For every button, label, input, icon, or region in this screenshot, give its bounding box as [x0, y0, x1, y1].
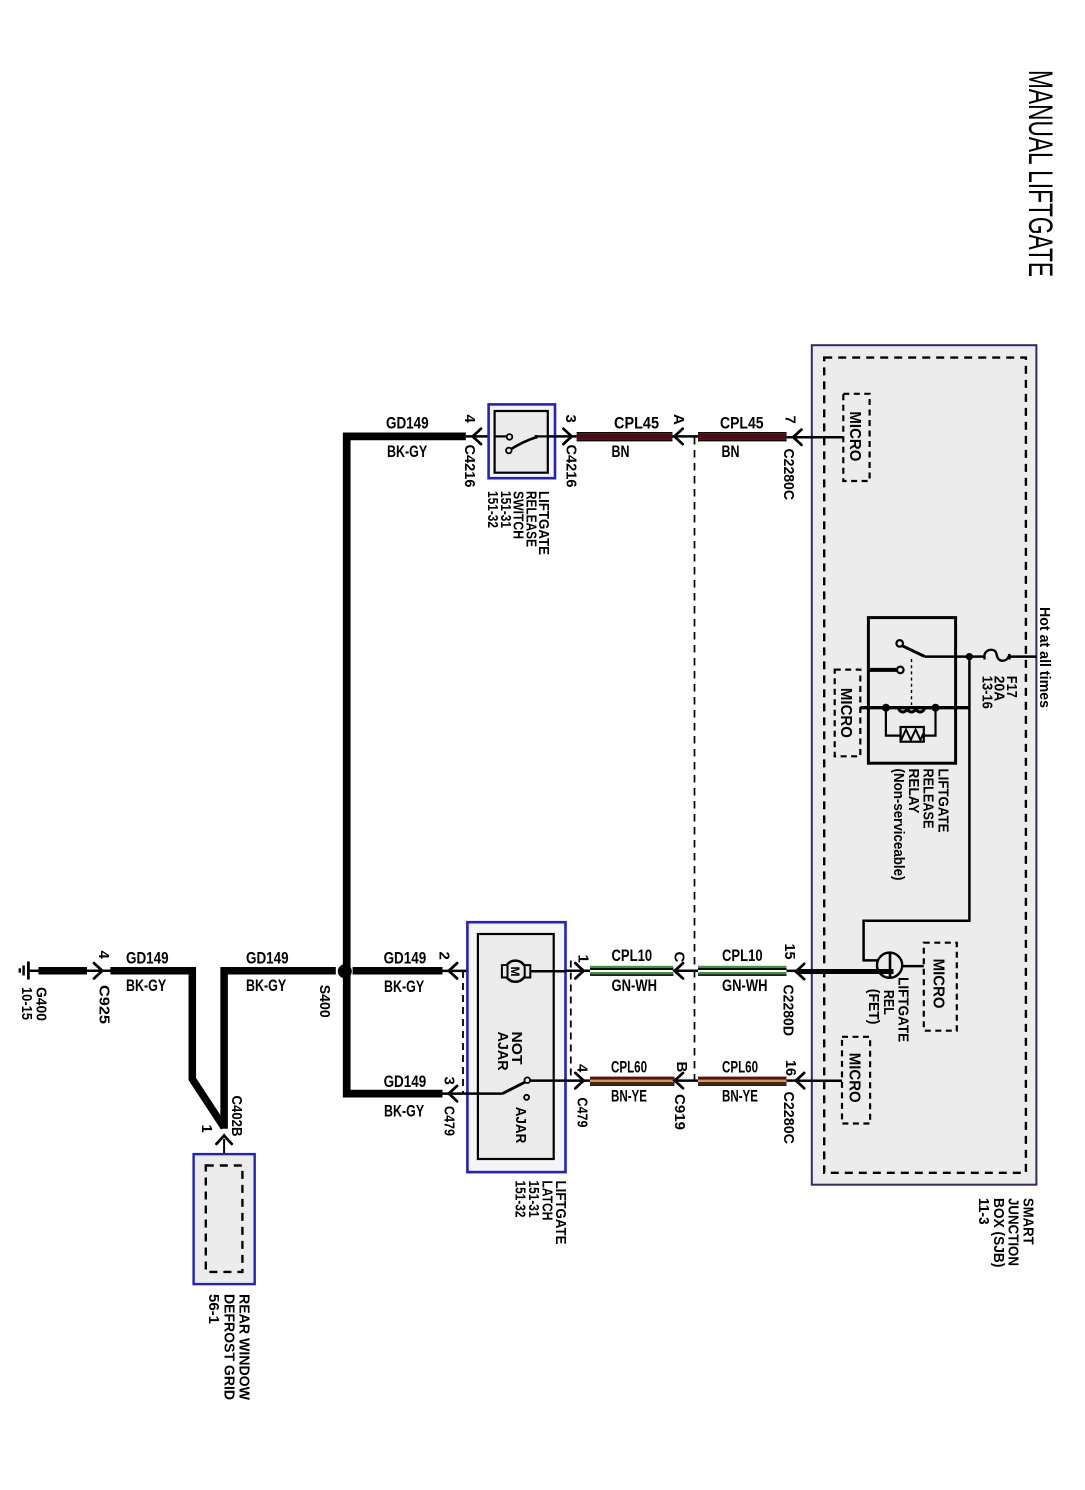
connector arrow C2280C pin 7: [793, 430, 802, 445]
connector arrow C479 pin 3: [449, 1086, 458, 1101]
svg-text:3: 3: [440, 1077, 457, 1085]
svg-text:C2280D: C2280D: [780, 985, 797, 1037]
wire CPL10 GN-WH segment 2: [698, 966, 787, 976]
svg-text:GD149: GD149: [126, 950, 169, 968]
wire thin into defrost grid: [223, 1139, 225, 1166]
wire GD149 row2 right thick: [353, 967, 443, 975]
svg-text:7: 7: [781, 416, 798, 424]
MICRO module U4 (CPL60 input): [842, 1037, 870, 1124]
svg-text:MICRO: MICRO: [846, 411, 863, 461]
svg-text:MICRO: MICRO: [930, 959, 947, 1009]
relay K1 liftgate release relay box: [868, 618, 955, 764]
svg-text:C925: C925: [95, 985, 112, 1024]
connector C479 dashed line left: [462, 971, 464, 1094]
svg-text:BK-GY: BK-GY: [246, 977, 286, 995]
svg-text:3: 3: [562, 415, 579, 423]
wire row2 thin across C919: [673, 970, 698, 973]
wire ajar switch to pin4: [530, 1079, 565, 1082]
svg-text:Hot at all times: Hot at all times: [1036, 607, 1053, 708]
wire vertical drop to C402B (right branch): [224, 971, 336, 1129]
wire battery feed down to FET: [864, 657, 970, 961]
MICRO module U2 (relay coil driver): [835, 670, 861, 757]
connector arrow C402B pin 1 (up): [216, 1135, 231, 1144]
svg-text:CPL45: CPL45: [614, 415, 659, 433]
svg-text:BN-YE: BN-YE: [722, 1088, 758, 1106]
wire pin1 out of latch: [566, 970, 591, 973]
wire row2 thin into latch: [443, 970, 503, 973]
connector arrow C2280C pin 16: [796, 1073, 805, 1088]
latch ajar switch pivot circle: [525, 1077, 531, 1083]
wire row1 thin switch to CPL45: [548, 435, 577, 438]
switch SW1 contact circle upper: [507, 434, 513, 440]
svg-text:CPL45: CPL45: [720, 415, 764, 433]
latch ajar switch open contact circle: [524, 1095, 529, 1100]
latch ajar switch wire left: [478, 1092, 503, 1095]
svg-text:CPL10: CPL10: [722, 947, 763, 965]
connector arrow C919 pin C: [675, 963, 684, 978]
fuse F17 wire left: [969, 655, 984, 658]
relay K1 pivot contact: [896, 640, 903, 647]
junction dot coil right: [932, 704, 940, 712]
wire CPL60 BN-YE segment 1: [590, 1077, 675, 1086]
svg-text:15: 15: [781, 944, 798, 960]
svg-text:1: 1: [198, 1125, 215, 1133]
wire row1 thin through switch pins: [466, 435, 495, 438]
wire fuse to Hot at all times: [1010, 655, 1037, 658]
switch SW1 wire stub right: [536, 435, 548, 437]
connector C919 dashed line: [694, 437, 696, 1081]
wire CPL45 BN segment 2: [698, 432, 787, 441]
svg-text:4: 4: [95, 951, 112, 960]
relay K1 N.O. fixed contact: [868, 668, 896, 672]
wire SJB internal row1 (pin7 to MICRO U1): [796, 436, 843, 439]
svg-text:BN-YE: BN-YE: [611, 1088, 647, 1106]
wire motor to pin1: [530, 970, 565, 973]
svg-text:C: C: [670, 952, 687, 963]
svg-text:BK-GY: BK-GY: [384, 978, 424, 996]
wire SJB internal row3 (pin16 to MICRO U4): [796, 1080, 842, 1083]
wire GD149 ground segment thick: [39, 967, 88, 975]
wire row1 thin across C919: [673, 435, 699, 438]
svg-text:BK-GY: BK-GY: [387, 443, 427, 461]
svg-text:C479: C479: [573, 1098, 590, 1128]
switch SW1 blade: [511, 437, 536, 449]
svg-text:4: 4: [461, 415, 478, 424]
wire CPL10 GN-WH segment 1: [590, 966, 673, 976]
svg-text:C402B: C402B: [228, 1096, 245, 1137]
svg-text:G40010-15: G40010-15: [18, 987, 49, 1021]
connector arrow C925 pin 4: [94, 963, 103, 978]
MICRO module U1 (top, CPL45 feed): [843, 394, 869, 481]
liftgate release switch box: [489, 404, 555, 478]
wire FET gate to MICRO: [902, 965, 924, 968]
junction dot coil left: [882, 704, 890, 712]
svg-text:CPL60: CPL60: [722, 1059, 758, 1077]
connector arrow C479 pin 1: [575, 963, 584, 978]
connector arrow C4216 pin 3: [563, 429, 572, 444]
connector C479 dashed line right: [570, 961, 572, 1081]
svg-text:BN: BN: [722, 443, 740, 461]
svg-text:S400: S400: [316, 985, 333, 1018]
svg-text:M: M: [508, 967, 522, 977]
svg-text:C4216: C4216: [461, 445, 478, 488]
svg-text:GN-WH: GN-WH: [612, 977, 658, 995]
wire relay common to fuse junction: [925, 655, 970, 658]
svg-text:GN-WH: GN-WH: [722, 977, 768, 995]
connector arrow C919 pin A: [674, 429, 683, 444]
relay K1 actuator dashed link: [911, 659, 913, 705]
svg-text:GD149: GD149: [384, 950, 427, 968]
connector arrow C919 pin B: [675, 1073, 684, 1088]
svg-text:C919: C919: [671, 1094, 688, 1130]
svg-text:GD149: GD149: [386, 415, 429, 433]
wire vertical drop to C402B (left branch): [110, 971, 224, 1128]
wire SJB internal row2 thick (pin15 to FET): [797, 969, 894, 974]
wire GD149 row1 + vertical S400 branch + row3: [347, 436, 466, 1093]
motor M1 latch motor: [502, 961, 530, 982]
svg-text:AJAR: AJAR: [512, 1107, 529, 1144]
MICRO module U3 (FET gate): [924, 943, 957, 1031]
ground G400: [20, 962, 29, 980]
svg-text:4: 4: [573, 1064, 590, 1073]
resistor R1 legs: [886, 708, 936, 736]
switch SW1 wire stub left: [495, 435, 507, 437]
connector arrow C479 pin 4: [575, 1073, 584, 1088]
junction dot fuse feed: [966, 653, 973, 660]
SJB smart junction box outline: [812, 345, 1037, 1184]
connector arrow C479 pin 2: [449, 963, 458, 978]
svg-text:GD149: GD149: [246, 950, 289, 968]
wire CPL60 BN-YE segment 2: [698, 1077, 787, 1086]
wire CPL45 BN segment 1: [577, 432, 673, 441]
wire row2 thin through C925: [87, 970, 112, 973]
connector arrow C4216 pin 4: [473, 429, 482, 444]
svg-text:CPL60: CPL60: [611, 1059, 647, 1077]
svg-text:BK-GY: BK-GY: [384, 1103, 424, 1121]
relay K1 coil humps: [899, 708, 925, 712]
resistor R1 (relay suppression): [901, 727, 924, 742]
wire row3 thin across C919: [675, 1079, 699, 1082]
connector arrow C2280D pin 15: [796, 964, 805, 979]
svg-text:(FET): (FET): [865, 989, 882, 1025]
relay K1 coil line: [860, 706, 969, 709]
svg-text:CPL10: CPL10: [612, 947, 653, 965]
svg-text:GD149: GD149: [384, 1073, 427, 1091]
svg-text:MICRO: MICRO: [845, 1053, 862, 1103]
svg-text:1: 1: [575, 955, 592, 963]
relay K1 blade: [902, 646, 924, 657]
transistor Q1 liftgate release FET: [877, 953, 902, 978]
svg-text:MICRO: MICRO: [837, 688, 854, 738]
wire row2 thin to SJB: [787, 970, 801, 973]
svg-text:2: 2: [436, 952, 453, 960]
svg-text:16: 16: [782, 1060, 799, 1076]
svg-text:A: A: [670, 414, 687, 425]
svg-text:C4216: C4216: [563, 445, 580, 488]
splice S400 node: [338, 964, 352, 978]
svg-text:BN: BN: [612, 443, 630, 461]
svg-text:C2280C: C2280C: [780, 449, 797, 501]
svg-text:BK-GY: BK-GY: [126, 977, 166, 995]
wire row3 thin to SJB: [787, 1079, 801, 1082]
wire ground stub thin: [28, 970, 40, 973]
latch ajar switch blade: [502, 1082, 525, 1094]
wire row3 thin into latch: [443, 1092, 478, 1095]
wire row1 thin into SJB: [787, 436, 812, 439]
svg-text:C479: C479: [440, 1106, 457, 1136]
svg-text:MANUAL LIFTGATE: MANUAL LIFTGATE: [1021, 70, 1059, 277]
switch SW1 contact circle lower: [506, 448, 512, 454]
fuse F17 symbol: [985, 650, 1010, 661]
liftgate latch box: [467, 922, 565, 1172]
wire pin4 out of latch: [566, 1079, 591, 1082]
svg-text:C2280C: C2280C: [780, 1092, 797, 1145]
svg-text:B: B: [673, 1062, 690, 1073]
rear window defrost grid box: [194, 1154, 255, 1284]
